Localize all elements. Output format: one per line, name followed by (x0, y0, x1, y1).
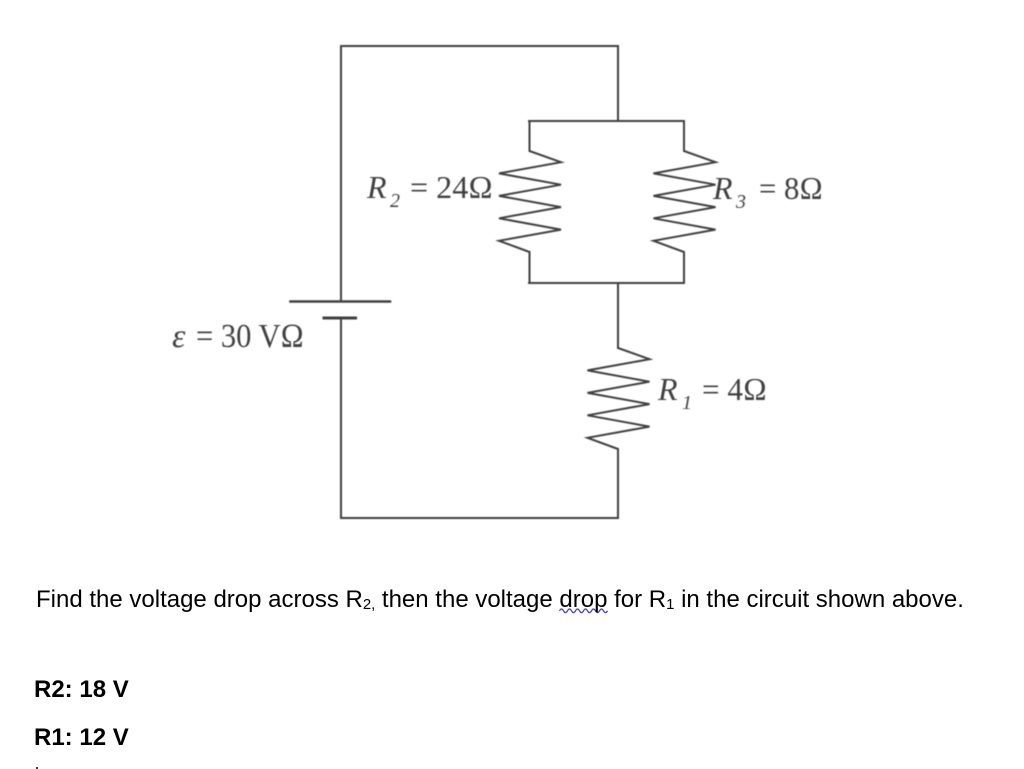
svg-text:1: 1 (682, 392, 692, 414)
svg-text:= 24Ω: = 24Ω (410, 169, 493, 205)
question text line (36, 586, 964, 614)
wire parallel-box bottom horizontal (529, 282, 684, 284)
svg-text:R: R (366, 169, 387, 205)
svg-text:= 4Ω: = 4Ω (702, 371, 767, 407)
wire loop: battery + lead, top rail, right drop to parallel box (341, 46, 618, 300)
stray dot bottom left (36, 767, 39, 769)
wire loop: battery - lead, bottom rail, up to R1 (341, 319, 618, 518)
label R2 = 24Ohm (366, 169, 493, 212)
answer line R2 (34, 676, 129, 704)
svg-text:R: R (657, 371, 678, 407)
squiggly spellcheck underline under word drop (560, 609, 608, 613)
svg-text:3: 3 (735, 191, 746, 213)
svg-text:= 30 VΩ: = 30 VΩ (196, 318, 304, 355)
wire parallel-box top horizontal (529, 120, 684, 122)
label R3 = 8Ohm (712, 170, 823, 213)
label R1 = 4Ohm (657, 371, 767, 414)
answer line R1 (34, 724, 129, 752)
label emf = 30 V Ohm (172, 318, 304, 355)
battery B1 long plate (+) (291, 300, 391, 303)
resistor R3 with leads (zigzag) (654, 121, 716, 283)
resistor R2 with leads (zigzag) (499, 121, 561, 283)
resistor R1 with leads (zigzag), node at box bottom (588, 283, 650, 518)
svg-text:2: 2 (390, 190, 400, 212)
svg-text:R: R (712, 170, 733, 206)
svg-text:= 8Ω: = 8Ω (759, 170, 823, 206)
battery B1 short plate (-) (324, 317, 356, 320)
svg-text:ε: ε (172, 318, 186, 355)
